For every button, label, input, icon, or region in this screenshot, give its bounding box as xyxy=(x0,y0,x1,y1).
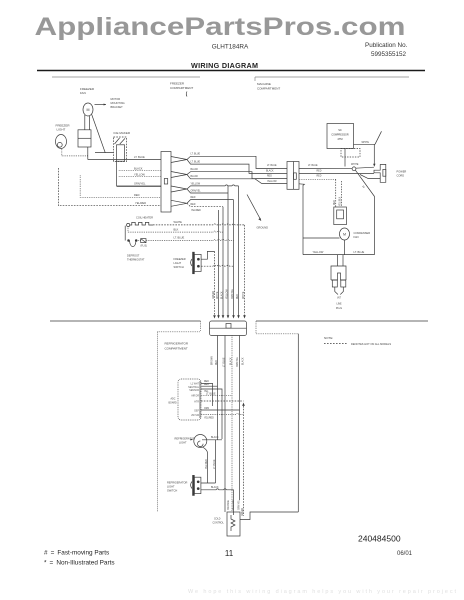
wire relay elbow to loop left xyxy=(299,184,304,255)
svg-text:BLACK: BLACK xyxy=(191,175,199,178)
fanout pair 1 wires xyxy=(187,156,287,168)
label cold control xyxy=(213,519,225,525)
label freezer compartment xyxy=(170,82,193,91)
label coil heater xyxy=(136,216,153,220)
svg-text:BLACK: BLACK xyxy=(242,357,245,365)
wire fan box down xyxy=(87,147,89,160)
svg-text:GLHT184RA: GLHT184RA xyxy=(212,44,249,51)
svg-text:2W SW: 2W SW xyxy=(191,415,200,417)
svg-text:COLD: COLD xyxy=(214,519,221,521)
svg-text:CONDENSER: CONDENSER xyxy=(354,231,371,235)
svg-text:COIL HEATER: COIL HEATER xyxy=(136,216,153,220)
wire BLACK dotted to connector xyxy=(119,170,161,172)
svg-text:ORN/YEL: ORN/YEL xyxy=(238,499,240,510)
svg-text:FREEZER: FREEZER xyxy=(174,257,186,261)
svg-text:NOTE:: NOTE: xyxy=(324,336,333,340)
svg-text:WHITE: WHITE xyxy=(351,164,359,166)
fanout pair 2 wires xyxy=(187,172,287,179)
svg-text:REFRIGERATOR: REFRIGERATOR xyxy=(165,342,189,346)
rotated labels lamp wires xyxy=(206,459,216,469)
wire lamp drop 1 xyxy=(203,447,208,478)
label power cord xyxy=(397,170,407,178)
svg-text:WHITE: WHITE xyxy=(217,291,219,299)
bundle vertical 3 xyxy=(222,207,224,316)
divider left segment xyxy=(50,320,201,322)
svg-text:MACHINE: MACHINE xyxy=(257,82,271,86)
svg-text:LIGHT: LIGHT xyxy=(179,441,187,445)
svg-text:WHITE: WHITE xyxy=(174,220,183,224)
svg-text:4TM: 4TM xyxy=(337,137,342,141)
defrost coil heater element xyxy=(127,223,130,226)
ground leader xyxy=(247,195,260,219)
boundary right vertical xyxy=(297,334,299,512)
svg-text:YEL/RED: YEL/RED xyxy=(191,210,201,212)
ADC control board xyxy=(178,379,201,420)
junction dot defrost xyxy=(128,240,130,242)
svg-text:COMPARTMENT: COMPARTMENT xyxy=(170,86,193,90)
wire LT BLUE dotted to bundle xyxy=(137,239,234,240)
terminal block xyxy=(210,321,247,336)
svg-text:DENOTES HOT ON ALL MODELS: DENOTES HOT ON ALL MODELS xyxy=(351,342,391,346)
wire relay to junction LT BLUE xyxy=(299,168,352,170)
freezer light switch bar xyxy=(193,252,195,274)
svg-text:BLACK: BLACK xyxy=(266,169,274,172)
svg-text:COMPARTMENT: COMPARTMENT xyxy=(165,347,188,351)
svg-text:NEUTRAL: NEUTRAL xyxy=(188,386,199,389)
svg-text:RED: RED xyxy=(204,384,209,386)
condenser fan motor xyxy=(340,228,350,240)
run capacitor xyxy=(334,207,347,225)
svg-text:5995355152: 5995355152 xyxy=(371,51,407,58)
svg-text:YELLOW: YELLOW xyxy=(191,183,201,185)
svg-text:RED: RED xyxy=(204,381,209,383)
title rule xyxy=(37,70,425,72)
rotated wire labels above terminal xyxy=(213,288,245,299)
svg-text:LIGHT: LIGHT xyxy=(167,485,175,489)
fanout pair 4 wires xyxy=(187,200,234,204)
dashed return wire with up arrow xyxy=(243,406,245,516)
svg-text:LINE: LINE xyxy=(336,304,342,306)
label defrost thermostat xyxy=(127,254,145,262)
wire ice maker drop xyxy=(116,162,118,187)
svg-text:ORN/YEL: ORN/YEL xyxy=(232,288,234,299)
svg-text:LT. BLUE: LT. BLUE xyxy=(354,250,365,254)
power cord plug xyxy=(360,164,386,182)
svg-text:LIGHT: LIGHT xyxy=(174,261,182,265)
svg-text:GROUND: GROUND xyxy=(257,226,269,230)
label line plug xyxy=(336,298,342,310)
svg-text:WHITE: WHITE xyxy=(243,291,245,299)
freezer fan terminal box xyxy=(78,130,91,147)
svg-text:BLACK: BLACK xyxy=(221,291,224,299)
svg-text:POWER: POWER xyxy=(397,170,407,174)
wire fan to loop bottom xyxy=(344,240,346,255)
label condenser fan xyxy=(354,231,371,239)
machine compartment top boundary xyxy=(255,76,409,78)
loop bottom xyxy=(303,254,375,256)
wire heater inner dotted drop xyxy=(127,227,129,233)
svg-text:(FL/S): (FL/S) xyxy=(141,245,148,247)
strain relief diagonal xyxy=(375,131,382,144)
freezer light lamp xyxy=(56,135,67,149)
svg-text:CORD: CORD xyxy=(397,174,405,178)
bundle vertical 1 dashed xyxy=(214,251,216,316)
label refrigerator light switch xyxy=(167,481,187,493)
svg-text:YELLOW: YELLOW xyxy=(227,289,229,299)
wire junction to power cord xyxy=(356,167,374,168)
svg-text:LT. BLUE: LT. BLUE xyxy=(224,357,226,367)
capacitor dashed drops xyxy=(335,179,337,207)
board wire 7 xyxy=(201,413,244,414)
svg-text:LT. BLUE: LT. BLUE xyxy=(267,165,277,167)
wire switch top elbow xyxy=(201,251,214,259)
svg-text:M: M xyxy=(87,108,90,112)
svg-text:ADC: ADC xyxy=(171,398,176,401)
line plug prongs xyxy=(332,280,337,287)
wire lamp BLACK xyxy=(202,439,222,441)
wire ORN/YEL to connector xyxy=(117,185,161,187)
connector block J1 xyxy=(161,152,171,213)
label motor mounting bracket xyxy=(111,97,125,109)
svg-text:YELLOW: YELLOW xyxy=(267,181,277,183)
svg-text:LT. BLUE: LT. BLUE xyxy=(214,459,216,469)
wire LT BLUE to connector xyxy=(88,159,161,161)
svg-text:LT. BLUE: LT. BLUE xyxy=(174,236,185,240)
rotated labels above cold control xyxy=(227,499,240,510)
wire WHITE dashed to bundle xyxy=(153,224,245,225)
svg-text:GREEN: GREEN xyxy=(242,507,244,516)
svg-text:MOUNTING: MOUNTING xyxy=(111,101,125,105)
lower vertical D xyxy=(239,336,241,501)
wire YEL/RED elbow dashed xyxy=(58,168,161,206)
wire lamp drop 2 xyxy=(215,440,217,483)
label freezer light xyxy=(56,124,71,132)
svg-text:LT. BLUE: LT. BLUE xyxy=(206,393,216,395)
svg-text:ICE MAKER: ICE MAKER xyxy=(114,131,131,135)
labels RED RED right of relay xyxy=(317,176,322,178)
svg-text:RED: RED xyxy=(267,175,272,177)
ice maker inner block xyxy=(117,145,125,161)
svg-text:240484500: 240484500 xyxy=(358,534,401,544)
svg-text:FAN: FAN xyxy=(354,235,359,239)
fanout pair 3 wires xyxy=(187,185,239,189)
svg-text:HTR: HTR xyxy=(194,401,199,403)
svg-text:BOARD: BOARD xyxy=(169,402,178,405)
svg-text:SC: SC xyxy=(338,128,342,132)
refrigerator light switch body xyxy=(194,477,201,493)
svg-text:PLUG: PLUG xyxy=(336,308,342,310)
wire fan to box left xyxy=(84,115,86,130)
svg-text:YEL/RED: YEL/RED xyxy=(204,418,214,420)
wire compressor bottom drop xyxy=(344,149,346,167)
svg-text:# = Fast-moving Parts: # = Fast-moving Parts xyxy=(44,550,109,557)
machine compartment corner tick xyxy=(254,77,256,81)
fanout arrow 4 xyxy=(171,200,187,206)
leader arrow to bracket xyxy=(95,104,107,106)
wire fan diagonal xyxy=(92,115,106,153)
label refrigerator compartment xyxy=(165,342,189,351)
wire loop inner horizontal xyxy=(303,237,340,239)
fanout arrow 2 xyxy=(171,172,187,178)
refrigerator light lamp xyxy=(194,435,207,448)
svg-text:BRACKET: BRACKET xyxy=(111,105,124,109)
svg-text:06/01: 06/01 xyxy=(397,551,413,557)
svg-text:LT. BLUE: LT. BLUE xyxy=(134,155,145,159)
cold control box xyxy=(227,512,240,536)
svg-text:COMPARTMENT: COMPARTMENT xyxy=(257,87,280,91)
lower vertical C dotted xyxy=(231,336,233,513)
wire relay BLACK to power cord xyxy=(299,172,374,174)
svg-text:ORN: ORN xyxy=(204,408,209,410)
svg-text:LIGHT: LIGHT xyxy=(57,128,66,132)
board wire 5 long dashed xyxy=(201,400,244,402)
svg-text:COMPRESSOR: COMPRESSOR xyxy=(331,134,349,137)
svg-text:AIR DR: AIR DR xyxy=(191,395,199,398)
wire power cord drop w arrow xyxy=(373,144,375,164)
svg-text:MOTOR: MOTOR xyxy=(111,97,121,101)
refrigerator boundary corner left xyxy=(158,321,201,332)
svg-text:ORN/YEL: ORN/YEL xyxy=(237,356,239,367)
svg-text:SWITCH: SWITCH xyxy=(167,489,177,493)
board wire 3 xyxy=(201,389,222,439)
wire YELLOW dotted to connector xyxy=(119,176,161,178)
lower vertical A xyxy=(217,336,219,441)
svg-text:YEL/BLK: YEL/BLK xyxy=(340,196,342,206)
lower vertical B xyxy=(224,336,226,513)
svg-text:11: 11 xyxy=(225,549,234,558)
svg-text:DEFROST: DEFROST xyxy=(127,254,140,258)
wire switch to drop1 xyxy=(201,478,216,483)
wire compressor to power cord top xyxy=(354,143,376,145)
board wire 4 xyxy=(201,394,232,396)
svg-text:YELLOW: YELLOW xyxy=(134,172,145,176)
svg-text:YELLOW: YELLOW xyxy=(313,250,324,254)
svg-text:V07: V07 xyxy=(337,298,342,300)
wire switch BLACK long xyxy=(201,489,234,496)
wire relay dotted to capacitor drop xyxy=(299,178,336,180)
refrigerator light switch bar xyxy=(193,475,195,495)
svg-text:BLACK: BLACK xyxy=(191,168,199,171)
svg-text:RED: RED xyxy=(237,294,239,299)
svg-text:BLACK: BLACK xyxy=(230,357,233,365)
leader arrow to lamp xyxy=(190,439,193,441)
bundle vertical 5 xyxy=(233,200,235,316)
diagonal junction to loop right xyxy=(356,170,375,196)
wire horizontal to ice maker xyxy=(95,152,114,154)
svg-text:RED: RED xyxy=(191,204,196,206)
svg-text:L1 WHT: L1 WHT xyxy=(191,384,200,386)
wire switch bottom dashed xyxy=(201,265,233,266)
svg-text:ORANGE: ORANGE xyxy=(227,500,230,510)
freezer light switch body xyxy=(194,254,201,271)
svg-text:CONTROL: CONTROL xyxy=(213,523,225,525)
svg-text:RED: RED xyxy=(134,193,140,197)
svg-text:ORN/YEL: ORN/YEL xyxy=(134,182,146,186)
fanout arrow 1 xyxy=(171,157,187,163)
labels left of relay xyxy=(266,165,277,183)
wire BLK dotted to bundle xyxy=(128,231,223,232)
boundary to cold control xyxy=(240,512,298,520)
board wire 6 xyxy=(201,409,240,411)
loop right vertical xyxy=(374,197,376,255)
svg-text:SWITCH: SWITCH xyxy=(174,265,184,269)
svg-text:Publication No.: Publication No. xyxy=(365,42,408,49)
refrigerator boundary corner right xyxy=(256,321,298,334)
defrost fuse xyxy=(141,239,146,243)
compressor internal dashed xyxy=(341,149,360,158)
bundle vertical 4 xyxy=(227,186,229,316)
svg-text:RED: RED xyxy=(317,176,322,178)
svg-text:LT. BLUE: LT. BLUE xyxy=(191,154,201,156)
rotated labels below terminal xyxy=(212,356,245,367)
freezer compartment tick xyxy=(185,92,188,97)
wire freezer light drop xyxy=(61,149,63,156)
svg-text:RED: RED xyxy=(191,197,196,199)
defrost thermostat xyxy=(130,241,137,247)
svg-text:ORN/YEL: ORN/YEL xyxy=(191,190,202,192)
board wire 2 xyxy=(201,385,218,387)
note legend xyxy=(324,336,333,340)
svg-text:REFRIGERATOR: REFRIGERATOR xyxy=(167,481,187,485)
wire freezer light to fan box xyxy=(62,155,88,157)
freezer compartment top boundary xyxy=(52,76,200,78)
svg-text:GREEN: GREEN xyxy=(213,290,215,299)
bundle vertical 6 xyxy=(238,186,240,316)
label adc board xyxy=(169,398,178,405)
overload relay box xyxy=(287,162,299,190)
fanout arrow 3 xyxy=(171,186,187,192)
fanout labels xyxy=(191,154,202,213)
svg-text:BLACK: BLACK xyxy=(211,486,219,489)
ice maker dashed outline xyxy=(114,137,127,162)
svg-text:YEL/RED: YEL/RED xyxy=(135,201,146,205)
bundle vertical 2 xyxy=(218,210,220,316)
svg-text:BLACK: BLACK xyxy=(134,166,143,170)
rotated labels by capacitor xyxy=(334,196,342,206)
wire heater left drop xyxy=(124,226,126,241)
label refrigerator light xyxy=(175,437,195,445)
svg-text:SENSOR: SENSOR xyxy=(189,390,199,392)
wire fan to box right xyxy=(89,116,91,130)
compressor box xyxy=(327,124,354,149)
line plug body xyxy=(331,266,346,280)
label freezer fan xyxy=(80,87,95,95)
bundle arrowheads xyxy=(213,315,246,318)
svg-text:* = Non-Illustrated Parts: * = Non-Illustrated Parts xyxy=(44,560,115,567)
svg-text:FAN: FAN xyxy=(80,91,86,95)
label freezer light switch xyxy=(174,257,186,269)
svg-text:AppliancePartsPros.com: AppliancePartsPros.com xyxy=(35,13,406,41)
board wire 1 xyxy=(201,383,213,406)
svg-text:THERMOSTAT: THERMOSTAT xyxy=(127,258,145,262)
divider right segment xyxy=(256,320,428,322)
label ice maker xyxy=(114,131,131,135)
label machine compartment xyxy=(257,82,280,91)
refrigerator boundary left vertical xyxy=(157,332,159,512)
wires loop to line plug xyxy=(337,255,339,266)
svg-text:RED: RED xyxy=(216,360,218,365)
board pin labels xyxy=(188,384,200,417)
junction circle xyxy=(352,167,356,171)
svg-text:DEF: DEF xyxy=(194,411,199,413)
svg-text:FREEZER: FREEZER xyxy=(170,82,185,86)
wires into cold control xyxy=(233,496,235,515)
svg-text:BLACK: BLACK xyxy=(211,436,219,439)
svg-text:LT. BLUE: LT. BLUE xyxy=(308,165,318,167)
svg-text:YEL/RED: YEL/RED xyxy=(206,459,208,469)
prong leads xyxy=(335,287,344,295)
svg-text:WHITE: WHITE xyxy=(362,142,370,144)
svg-text:BLK: BLK xyxy=(174,227,179,231)
ice maker inner diagonals xyxy=(115,138,126,144)
bundle vertical 7 dashed xyxy=(244,225,246,316)
label white at junction xyxy=(351,164,359,166)
svg-text:BROWN: BROWN xyxy=(212,356,214,365)
svg-text:RED: RED xyxy=(334,200,336,205)
svg-text:RED: RED xyxy=(317,171,322,173)
svg-text:WIRING DIAGRAM: WIRING DIAGRAM xyxy=(191,61,258,70)
svg-text:LT. BLUE: LT. BLUE xyxy=(191,162,201,164)
freezer fan motor M1 xyxy=(83,103,93,116)
svg-text:M: M xyxy=(343,233,346,237)
wire RED elbow xyxy=(80,175,161,197)
